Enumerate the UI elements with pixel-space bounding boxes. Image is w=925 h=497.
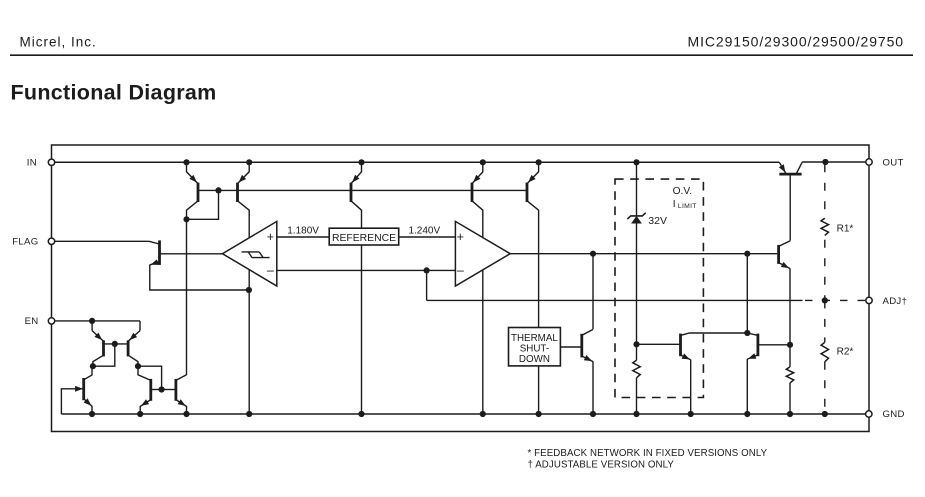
wire thermal shutdown output bbox=[560, 346, 581, 348]
junction GND/Q11 bbox=[744, 411, 750, 417]
junction ADJ/R1R2 bbox=[822, 297, 828, 303]
wire feedback node down bbox=[426, 270, 428, 300]
wire Q4 collector run bbox=[482, 210, 484, 414]
wire emitter resistor to ground bbox=[789, 383, 791, 414]
dashed feedback line R2 to GND bbox=[824, 362, 826, 410]
pin GND bbox=[866, 411, 872, 417]
junction feedback node bbox=[424, 267, 430, 273]
wire Q9 emitter run bbox=[592, 361, 594, 414]
svg-text:GND: GND bbox=[883, 409, 905, 420]
transistor Q5 bbox=[527, 162, 539, 210]
junction GND/Q5 run bbox=[536, 411, 542, 417]
O.V. / current-limit dashed box bbox=[615, 179, 703, 397]
wire Q2 collector run bbox=[248, 210, 250, 414]
svg-text:1.180V: 1.180V bbox=[287, 225, 319, 236]
pin FLAG bbox=[48, 238, 54, 244]
svg-text:* FEEDBACK NETWORK IN FIXED VE: * FEEDBACK NETWORK IN FIXED VERSIONS ONL… bbox=[528, 448, 768, 459]
reference block bbox=[329, 228, 399, 245]
resistor O.V. pulldown bbox=[633, 360, 640, 378]
pin ADJ bbox=[866, 297, 872, 303]
wire zener branch lower bbox=[636, 224, 638, 361]
wire error amp output rail bbox=[510, 253, 777, 255]
svg-text:32V: 32V bbox=[648, 215, 667, 227]
transistor Q9 (thermal shutdown output) bbox=[582, 329, 593, 361]
svg-text:THERMAL: THERMAL bbox=[511, 333, 558, 344]
junction GND/Q3 run bbox=[358, 411, 364, 417]
svg-text:I: I bbox=[673, 199, 676, 210]
transistor Q13 (driver NPN) bbox=[779, 241, 791, 269]
svg-text:† ADJUSTABLE VERSION ONLY: † ADJUSTABLE VERSION ONLY bbox=[528, 459, 675, 470]
transistor Q3 bbox=[351, 162, 362, 210]
junction Q11 base/resistor bbox=[787, 342, 793, 348]
svg-text:Micrel, Inc.: Micrel, Inc. bbox=[20, 35, 97, 50]
junction error output/current limit bbox=[744, 251, 750, 257]
junction Q15 collector bbox=[90, 363, 96, 369]
dashed feedback line R1 to ADJ bbox=[824, 240, 826, 301]
resistor R2 bbox=[821, 342, 828, 362]
wire EN rail drop right bbox=[139, 321, 141, 331]
wire reference to error amp + input bbox=[399, 236, 456, 238]
resistor Q13 emitter degeneration bbox=[786, 367, 793, 383]
wire Q5 collector run (through thermal shutdown) bbox=[538, 210, 540, 414]
junction GND/Q4 run bbox=[480, 411, 486, 417]
junction Q10/Q11 collectors bbox=[744, 330, 750, 336]
wire zener branch to ground bbox=[636, 378, 638, 414]
wire zener branch upper bbox=[636, 162, 638, 216]
comparator U1 (flag comparator) bbox=[222, 221, 276, 286]
thermal shutdown block bbox=[509, 328, 561, 366]
junction GND/Q9 bbox=[590, 411, 596, 417]
comparator hysteresis symbol bbox=[242, 252, 270, 258]
wire Q3 collector run (through reference) bbox=[361, 210, 363, 414]
error amplifier U2 bbox=[455, 221, 510, 286]
junction GND/OV resistor bbox=[633, 411, 639, 417]
thermal shutdown label bbox=[511, 333, 558, 365]
svg-text:LIMIT: LIMIT bbox=[678, 203, 697, 210]
wire emitter resistor feed bbox=[789, 345, 791, 367]
wire PNP mirror base rail bbox=[198, 189, 527, 191]
junction OUT/feedback bbox=[822, 159, 828, 165]
junction GND/Q18 bbox=[137, 411, 143, 417]
wire ADJ dashed link bbox=[805, 299, 866, 301]
wire EN rail bbox=[52, 320, 141, 322]
wire EN mirror base tie bbox=[104, 343, 129, 345]
wire GND rail bbox=[61, 413, 865, 415]
junction IN/Q2 bbox=[246, 159, 252, 165]
IC boundary box bbox=[52, 145, 870, 432]
junction IN/zener bbox=[633, 159, 639, 165]
pin IN bbox=[48, 159, 54, 165]
dashed feedback line ADJ to R2 bbox=[824, 300, 826, 342]
junction GND/Q10 bbox=[688, 411, 694, 417]
wire Q15 base return bbox=[61, 389, 83, 414]
transistor Q14 (pass PNP) bbox=[779, 162, 802, 174]
wire current limit vertical bbox=[746, 254, 748, 333]
svg-text:R1*: R1* bbox=[837, 224, 854, 235]
wire O.V. sense base wire bbox=[637, 343, 681, 345]
svg-text:FLAG: FLAG bbox=[12, 237, 38, 248]
svg-text:1.240V: 1.240V bbox=[408, 225, 440, 236]
svg-text:DOWN: DOWN bbox=[519, 354, 550, 365]
wire mirror tie from base rail bbox=[187, 190, 219, 219]
junction GND/emitter resistor bbox=[787, 411, 793, 417]
wire EN rail drop left bbox=[91, 321, 93, 331]
svg-text:+: + bbox=[457, 230, 464, 244]
junction GND/Q17 bbox=[89, 411, 95, 417]
transistor Q16 (EN mirror right PNP) bbox=[128, 331, 140, 367]
junction node B bbox=[183, 216, 189, 222]
svg-text:MIC29150/29300/29500/29750: MIC29150/29300/29500/29750 bbox=[688, 34, 904, 50]
svg-text:+: + bbox=[267, 230, 274, 244]
wire comparator + input to reference bbox=[277, 236, 329, 238]
svg-text:O.V.: O.V. bbox=[673, 186, 692, 197]
wire Q13 emitter run bbox=[789, 268, 791, 344]
svg-text:ADJ†: ADJ† bbox=[883, 296, 908, 307]
junction IN/Q5 bbox=[536, 159, 542, 165]
transistor Q19 (bottom mirror right NPN) bbox=[162, 375, 187, 414]
wire ADJ feedback run bbox=[427, 299, 803, 301]
transistor Q18 (bottom mirror left NPN) bbox=[138, 366, 162, 414]
transistor Q11 (current limit NPN) bbox=[747, 333, 758, 359]
junction error output/Q9 bbox=[590, 251, 596, 257]
transistor Q2 bbox=[238, 162, 250, 210]
svg-text:REFERENCE: REFERENCE bbox=[332, 233, 396, 244]
junction GND/Q2 run bbox=[246, 411, 252, 417]
svg-text:–: – bbox=[457, 264, 464, 278]
wire comparator output to Q6 base bbox=[160, 253, 223, 255]
transistor Q1 bbox=[187, 162, 199, 219]
svg-text:EN: EN bbox=[25, 316, 39, 327]
wire Q9 collector run bbox=[592, 254, 594, 330]
junction EN mirror bases bbox=[112, 341, 118, 347]
wire Q10 emitter run bbox=[690, 360, 692, 414]
wire IN rail bbox=[52, 161, 780, 163]
wire Q11 emitter run bbox=[746, 359, 748, 414]
junction bottom mirror bases bbox=[159, 386, 165, 392]
transistor Q15 (EN mirror left PNP) bbox=[92, 331, 103, 367]
transistor Q10 (O.V. clamp NPN) bbox=[681, 333, 748, 360]
junction Q16 collector bbox=[135, 363, 141, 369]
transistor Q6 (FLAG output) bbox=[149, 240, 160, 265]
wire OUT lead bbox=[802, 161, 866, 163]
header horizontal rule bbox=[10, 54, 913, 56]
junction EN/Q15 bbox=[89, 318, 95, 324]
transistor Q4 bbox=[472, 162, 483, 210]
wire Q11 base wire bbox=[758, 344, 790, 346]
svg-text:R2*: R2* bbox=[837, 347, 854, 358]
svg-text:–: – bbox=[267, 264, 274, 278]
resistor R1 bbox=[821, 218, 828, 235]
pin OUT bbox=[866, 159, 872, 165]
zener diode D1 32V bbox=[627, 213, 645, 219]
wire comparator - to error amp - (feedback node) bbox=[277, 269, 456, 271]
junction zener/Q10 base bbox=[633, 341, 639, 347]
junction IN/Q1 bbox=[183, 159, 189, 165]
svg-text:OUT: OUT bbox=[883, 157, 904, 168]
wire EN mirror output tie bbox=[138, 366, 162, 389]
svg-text:Functional Diagram: Functional Diagram bbox=[11, 81, 217, 105]
junction IN/Q3 bbox=[358, 159, 364, 165]
junction IN/Q4 bbox=[480, 159, 486, 165]
junction node A bbox=[246, 287, 252, 293]
wire Q6 emitter to node A bbox=[150, 265, 249, 290]
junction GND/R2 bbox=[822, 411, 828, 417]
dashed feedback line OUT to R1 bbox=[824, 164, 826, 218]
wire long bias line (node B down to Q16 collector) bbox=[186, 219, 188, 375]
svg-text:SHUT-: SHUT- bbox=[520, 344, 549, 355]
transistor Q17 (start-up, diode-connected) bbox=[75, 366, 92, 414]
wire FLAG rail bbox=[52, 240, 149, 242]
svg-text:IN: IN bbox=[27, 158, 37, 169]
junction base rail tie bbox=[215, 187, 221, 193]
pin EN bbox=[48, 318, 54, 324]
wire EN mirror diode tie bbox=[93, 344, 115, 366]
wire Q14 base drive bbox=[789, 174, 791, 241]
junction GND/Q19 bbox=[183, 411, 189, 417]
